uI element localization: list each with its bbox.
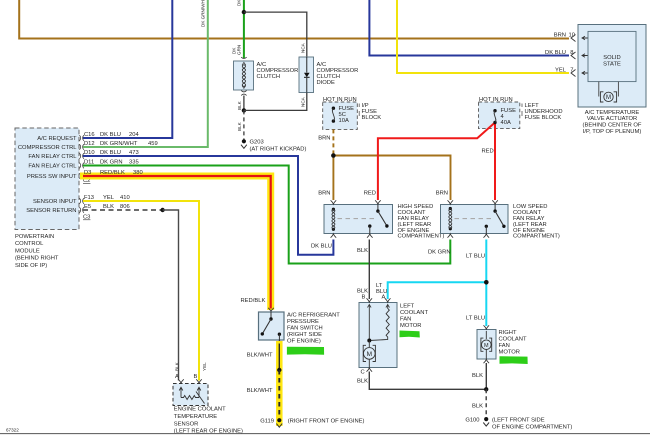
svg-text:B: B — [194, 374, 198, 380]
svg-text:204: 204 — [129, 132, 139, 138]
op PCM U2 powertrain control module box — [15, 128, 79, 230]
svg-text:G100: G100 — [465, 417, 479, 423]
label NCA (rotated, below diode) — [300, 96, 305, 107]
wire D3 RED/BLK 380 highlight band — [80, 176, 271, 310]
svg-text:D11: D11 — [84, 160, 94, 166]
svg-text:SENSOR: SENSOR — [174, 421, 198, 427]
label BLK (below relay) — [357, 248, 368, 254]
label BLK/WHT (lower) — [247, 388, 273, 394]
label HIGH SPEED COOLANT FAN RELAY — [398, 204, 445, 240]
svg-text:C3: C3 — [83, 215, 90, 221]
label LOW SPEED COOLANT FAN RELAY — [513, 204, 560, 240]
svg-text:LT BLU: LT BLU — [466, 254, 485, 260]
label DK GRN (at low speed relay output) — [428, 250, 451, 256]
svg-text:NCA: NCA — [300, 42, 305, 53]
svg-text:(BEHIND RIGHT: (BEHIND RIGHT — [15, 256, 59, 262]
label BLK (right motor ground) — [472, 373, 483, 379]
svg-text:BLOCK: BLOCK — [362, 115, 382, 121]
svg-text:(LEFT FRONT SIDE: (LEFT FRONT SIDE — [492, 417, 545, 423]
svg-text:OF ENGINE): OF ENGINE) — [287, 339, 321, 345]
label D11 DK GRN 335 — [84, 160, 139, 166]
wire BLK/WHT dashed to G119 — [278, 370, 280, 417]
svg-text:CLUTCH: CLUTCH — [257, 74, 281, 80]
svg-text:RED: RED — [364, 191, 376, 197]
wire BRN to low speed relay coil — [333, 156, 450, 201]
label NCA (rotated, above diode) — [300, 42, 305, 53]
wire BLK high speed relay to left fan motor pin B — [368, 240, 370, 300]
svg-text:BLK: BLK — [357, 248, 368, 254]
fuse 5C 10A — [332, 106, 354, 124]
label YEL (rotated, sensor pin B) — [202, 362, 207, 371]
label G100 (LEFT FRONT SIDE OF ENGINE COMPARTMENT) — [465, 417, 572, 430]
svg-text:BLK: BLK — [174, 361, 179, 371]
svg-text:COOLANT: COOLANT — [499, 337, 527, 343]
svg-text:SENSOR RETURN: SENSOR RETURN — [26, 208, 76, 214]
svg-text:LEFT: LEFT — [400, 304, 415, 310]
wire to clutch diode (top) — [244, 12, 307, 57]
wire D11 DK GRN 335 (fan relay ctrl to low speed relay coil) — [83, 166, 450, 264]
node junction clutch ground — [242, 108, 246, 112]
svg-text:BLK: BLK — [237, 100, 242, 110]
label connector C3 — [83, 215, 90, 221]
wire DK BLU (vertical from top edge, to actuator pin 8) — [369, 0, 569, 56]
label G203 (AT RIGHT KICKPAD) — [250, 140, 307, 153]
motor M2 left coolant fan motor — [359, 298, 397, 371]
label BRN (above high speed relay) — [318, 191, 330, 197]
label LEFT UNDERHOOD FUSE BLOCK — [522, 103, 563, 121]
svg-text:BRN: BRN — [554, 33, 566, 39]
wire E5 BLK 806 dashed (sensor return) — [83, 209, 163, 211]
node junction BRN splice — [331, 153, 336, 158]
actuator internal pin arrows — [582, 36, 588, 75]
diode D1 A/C compressor clutch diode — [299, 57, 314, 93]
svg-text:D12: D12 — [84, 141, 95, 147]
svg-text:COMPRESSOR CTRL: COMPRESSOR CTRL — [18, 145, 77, 151]
svg-text:SENSOR INPUT: SENSOR INPUT — [33, 199, 77, 205]
fuse block F1 I/P fuse block — [323, 97, 358, 130]
label RIGHT COOLANT FAN MOTOR — [499, 330, 527, 356]
wire RED diagonal + to high speed relay switch — [378, 123, 495, 201]
motor M3 right coolant fan motor — [477, 325, 496, 363]
svg-text:B: B — [362, 295, 366, 301]
wire DK GRN (vertical from top edge to A/C compressor clutch) — [243, 0, 245, 59]
svg-text:67322: 67322 — [6, 428, 19, 433]
svg-text:MOTOR: MOTOR — [499, 350, 520, 356]
svg-text:(AT RIGHT KICKPAD): (AT RIGHT KICKPAD) — [250, 147, 307, 153]
svg-text:VALVE ACTUATOR: VALVE ACTUATOR — [587, 116, 637, 122]
svg-text:RED/BLK: RED/BLK — [100, 170, 125, 176]
sensor RT1 engine coolant temperature sensor — [173, 379, 208, 405]
label A/C COMPRESSOR CLUTCH — [257, 62, 299, 80]
svg-text:DK GRN: DK GRN — [100, 160, 123, 166]
svg-text:YEL: YEL — [555, 68, 567, 74]
label LT BLU (above motor pin A) — [376, 283, 387, 301]
svg-text:COOLANT: COOLANT — [400, 310, 428, 316]
label BLK / B (above motor) — [357, 289, 368, 301]
label DK BLU (at high speed relay output) — [311, 244, 332, 250]
wire YEL (vertical from top edge, to actuator pin 7) — [397, 0, 569, 73]
svg-text:YEL: YEL — [202, 362, 207, 371]
svg-text:DK BLU: DK BLU — [545, 50, 566, 56]
svg-text:SOLID: SOLID — [603, 55, 620, 61]
svg-text:C16: C16 — [84, 132, 95, 138]
svg-text:RIGHT: RIGHT — [499, 330, 517, 336]
label D10 DK BLU 473 — [84, 150, 139, 156]
svg-text:DK BLU: DK BLU — [100, 132, 121, 138]
highlight marker (pressure switch) — [287, 347, 324, 355]
svg-text:BLK/WHT: BLK/WHT — [247, 388, 273, 394]
wire BLK dashed to G100 — [485, 389, 487, 417]
label LEFT COOLANT FAN MOTOR — [400, 304, 428, 330]
label D3 RED/BLK 380 — [84, 170, 143, 176]
wire LT BLU to right fan motor — [485, 282, 487, 326]
svg-text:BLK: BLK — [357, 379, 368, 385]
label DK GRN (rotated, cut at top edge) — [237, 0, 242, 6]
svg-text:BRN: BRN — [436, 191, 448, 197]
label ENGINE COOLANT TEMPERATURE SENSOR — [174, 407, 243, 435]
svg-text:PRESS SW INPUT: PRESS SW INPUT — [27, 174, 77, 180]
svg-text:HOT IN RUN: HOT IN RUN — [323, 97, 357, 103]
wire BLK clutch to junction — [243, 96, 245, 111]
node junction BLK/WHT splice — [277, 368, 281, 372]
svg-text:POWERTRAIN: POWERTRAIN — [15, 234, 54, 240]
svg-text:TEMPERATURE: TEMPERATURE — [174, 414, 218, 420]
label BLK (rotated, sensor pin A) — [174, 361, 179, 371]
label RED/BLK (above pressure switch) — [241, 298, 266, 304]
svg-text:RED: RED — [482, 149, 494, 155]
label BLK/WHT — [247, 353, 273, 359]
svg-text:RED/BLK: RED/BLK — [241, 298, 266, 304]
label BLK (rotated, below clutch) — [237, 100, 242, 110]
fuse 4 40A — [493, 108, 516, 126]
ground G203 — [241, 139, 247, 148]
node junction E5 splice — [160, 208, 164, 212]
svg-text:G119: G119 — [260, 418, 274, 424]
svg-text:OF ENGINE COMPARTMENT): OF ENGINE COMPARTMENT) — [492, 424, 572, 430]
wire D3 RED/BLK 380 (press sw input to pressure switch) — [83, 176, 271, 309]
svg-text:FAN RELAY CTRL: FAN RELAY CTRL — [28, 154, 77, 160]
svg-text:FAN: FAN — [400, 317, 411, 323]
diagram bottom border — [0, 433, 650, 435]
label BRN (above low speed relay) — [436, 191, 448, 197]
label 67322 — [6, 428, 19, 433]
actuator caption — [583, 110, 642, 135]
svg-text:C: C — [361, 370, 365, 376]
label I/P FUSE BLOCK — [359, 103, 381, 121]
wire BLK to ECT sensor pin A — [163, 210, 179, 381]
label BRN — [318, 136, 330, 142]
ground G119 — [276, 418, 282, 427]
svg-text:COMPARTMENT): COMPARTMENT) — [398, 234, 445, 240]
svg-text:A: A — [382, 295, 386, 301]
svg-text:806: 806 — [120, 204, 130, 210]
svg-text:M: M — [367, 351, 372, 358]
relay K2 low speed coolant fan relay — [441, 200, 509, 237]
PCM internal pin function labels — [18, 136, 77, 214]
label A / B pins — [175, 374, 198, 380]
relay K1 high speed coolant fan relay — [324, 200, 393, 237]
svg-text:GRN: GRN — [237, 45, 242, 55]
svg-text:A/C REFRIGERANT: A/C REFRIGERANT — [287, 313, 340, 319]
svg-text:HOT IN RUN: HOT IN RUN — [479, 97, 513, 103]
svg-text:FAN: FAN — [499, 343, 510, 349]
svg-text:M: M — [484, 343, 489, 349]
label A/C REFRIGERANT PRESSURE FAN SWITCH — [287, 313, 340, 345]
svg-text:(BEHIND CENTER OF: (BEHIND CENTER OF — [583, 123, 642, 129]
svg-text:380: 380 — [133, 170, 143, 176]
svg-text:MODULE: MODULE — [15, 248, 40, 254]
PCM pin connector symbols — [79, 135, 84, 213]
wire BLK/WHT switch to splice — [278, 344, 280, 371]
connector break at clutch bottom — [241, 91, 246, 96]
A/C temperature valve actuator U housing — [578, 25, 646, 108]
label BLK (rotated, above G203) — [237, 121, 242, 131]
svg-text:A/C TEMPERATURE: A/C TEMPERATURE — [585, 110, 640, 116]
svg-text:DIODE: DIODE — [317, 80, 335, 86]
wire BRN to high speed relay coil — [332, 156, 334, 201]
label BLK (above G100) — [472, 404, 483, 410]
wire LT BLU to left fan motor pin A — [388, 282, 487, 299]
svg-text:YEL: YEL — [103, 195, 115, 201]
svg-text:A/C REQUEST: A/C REQUEST — [37, 136, 77, 142]
node junction clutch/diode top — [242, 10, 246, 14]
label DK BLU 8 — [545, 50, 573, 56]
svg-text:STATE: STATE — [603, 62, 621, 68]
ground G100 — [483, 417, 489, 426]
A/C temperature valve actuator pin arrows — [571, 35, 576, 77]
svg-text:A: A — [175, 374, 179, 380]
wire LT BLU low speed relay to junction — [485, 240, 487, 283]
svg-text:DK GRN/WHT: DK GRN/WHT — [201, 0, 206, 27]
svg-text:PRESSURE: PRESSURE — [287, 319, 319, 325]
wire BRN (from top edge to actuator pin 10) — [19, 0, 569, 39]
svg-text:MOTOR: MOTOR — [400, 323, 421, 329]
label F13 YEL 410 — [84, 195, 130, 201]
svg-text:335: 335 — [129, 160, 139, 166]
svg-text:BLK: BLK — [237, 121, 242, 131]
svg-text:(RIGHT SIDE: (RIGHT SIDE — [287, 332, 322, 338]
label DK GRN/WHT (rotated, top) — [201, 0, 206, 27]
label RED (above high speed relay) — [364, 191, 376, 197]
wire BRN dashed from I/P fuse — [332, 129, 334, 155]
PCM caption POWERTRAIN CONTROL MODULE — [15, 234, 59, 269]
svg-text:BLK: BLK — [472, 373, 483, 379]
label C16 DK BLU 204 — [84, 132, 139, 138]
label BRN 10 — [554, 33, 575, 39]
svg-text:DK GRN: DK GRN — [237, 0, 242, 6]
svg-text:BLK: BLK — [103, 204, 114, 210]
A/C compressor clutch — [234, 61, 254, 90]
wire diode bottom to junction — [244, 93, 307, 111]
label G119 (RIGHT FRONT OF ENGINE) — [260, 418, 364, 424]
svg-text:D10: D10 — [84, 150, 95, 156]
highlight marker (left fan motor) — [400, 331, 420, 338]
label C / BLK (below motor) — [357, 370, 368, 385]
svg-text:BLK/WHT: BLK/WHT — [247, 353, 273, 359]
svg-text:DK BLU: DK BLU — [100, 150, 121, 156]
svg-text:COMPARTMENT): COMPARTMENT) — [513, 234, 560, 240]
svg-text:10A: 10A — [339, 118, 349, 124]
actuator motor M1 — [599, 82, 619, 102]
label LT BLU — [466, 254, 485, 260]
label RED (beside fuse wire) — [482, 149, 494, 155]
svg-text:BLK: BLK — [472, 404, 483, 410]
switch S1 A/C refrigerant pressure fan switch — [259, 308, 285, 344]
svg-text:40A: 40A — [501, 120, 511, 126]
svg-text:FAN SWITCH: FAN SWITCH — [287, 326, 323, 332]
svg-text:473: 473 — [129, 150, 139, 156]
svg-text:LT BLU: LT BLU — [466, 316, 485, 322]
wire F13 YEL 410 (sensor input to ECT sensor) — [83, 201, 199, 381]
svg-text:CONTROL: CONTROL — [15, 241, 44, 247]
svg-text:459: 459 — [148, 141, 158, 147]
connector break at clutch top — [241, 57, 246, 62]
node junction motor grounds — [484, 387, 488, 391]
svg-text:BRN: BRN — [318, 191, 330, 197]
fuse block F2 left underhood fuse block — [479, 97, 520, 129]
svg-text:D3: D3 — [84, 170, 91, 176]
label D12 DK GRN/WHT 459 — [84, 141, 158, 147]
wire BLK right motor to junction — [485, 363, 487, 389]
svg-text:DK GRN/WHT: DK GRN/WHT — [100, 141, 138, 147]
svg-text:FAN RELAY CTRL: FAN RELAY CTRL — [28, 163, 77, 169]
label YEL 7 — [555, 68, 573, 74]
wire BLK left motor ground — [369, 372, 486, 390]
svg-text:SIDE OF IP): SIDE OF IP) — [15, 263, 47, 269]
label connector C2 — [83, 178, 90, 184]
highlight marker (right fan motor) — [500, 356, 528, 364]
label LT BLU (above right motor) — [466, 316, 485, 322]
wire D10 DK BLU 473 (fan relay ctrl to high speed relay coil) — [83, 156, 333, 255]
wire RED to low speed relay switch — [494, 123, 496, 201]
svg-text:DK BLU: DK BLU — [311, 244, 332, 250]
node junction LT BLU splice — [484, 280, 489, 285]
wire BLK dashed to G203 — [243, 110, 245, 139]
svg-text:E5: E5 — [84, 204, 91, 210]
svg-text:M: M — [606, 95, 611, 101]
solid state module inside actuator — [588, 31, 636, 81]
wire C16 DK BLU 204 (A/C request, up to top edge) — [83, 0, 172, 138]
svg-text:G203: G203 — [250, 140, 264, 146]
wire D12 DK GRN/WHT 459 (compressor ctrl, up to top edge) — [83, 0, 208, 147]
svg-text:(RIGHT FRONT OF ENGINE): (RIGHT FRONT OF ENGINE) — [288, 418, 365, 424]
label A/C COMPRESSOR CLUTCH DIODE — [317, 62, 359, 86]
wire BLK/WHT highlight band to G119 — [276, 341, 283, 426]
svg-text:F13: F13 — [84, 195, 94, 201]
label DK GRN (rotated, above clutch) — [231, 45, 241, 55]
svg-text:DK GRN: DK GRN — [428, 250, 451, 256]
svg-text:NCA: NCA — [300, 96, 305, 107]
label E5 BLK 806 — [84, 204, 130, 210]
svg-text:I/P, TOP OF PLENUM): I/P, TOP OF PLENUM) — [583, 129, 642, 135]
svg-text:ENGINE COOLANT: ENGINE COOLANT — [174, 407, 226, 413]
svg-text:FUSE BLOCK: FUSE BLOCK — [525, 115, 562, 121]
svg-text:410: 410 — [120, 195, 130, 201]
svg-text:BRN: BRN — [318, 136, 330, 142]
